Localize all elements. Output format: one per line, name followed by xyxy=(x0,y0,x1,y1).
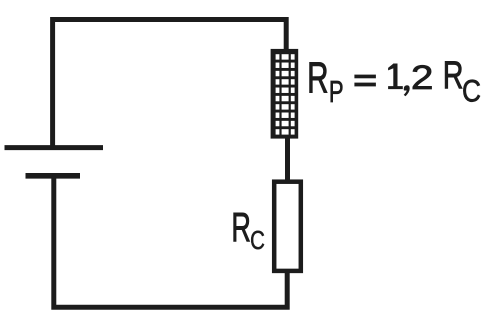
svg-text:C: C xyxy=(462,75,481,110)
svg-text:R: R xyxy=(443,54,464,97)
equals sign xyxy=(354,75,376,87)
battery B1 long plate xyxy=(5,145,104,150)
wire: between RP and RC xyxy=(285,137,290,181)
label RC (in equation) xyxy=(443,54,481,109)
wire: from battery bottom plate along bottom side up to resistor RC xyxy=(54,177,287,307)
label RC (at resistor) xyxy=(231,206,264,255)
resistor RC body xyxy=(274,182,301,271)
label RP xyxy=(307,53,343,109)
svg-text:P: P xyxy=(329,75,344,109)
svg-text:C: C xyxy=(250,226,265,255)
svg-text:2: 2 xyxy=(411,59,434,98)
wire: left+top side from battery top plate to resistor RP xyxy=(53,20,287,147)
battery B1 short plate xyxy=(26,173,81,179)
resistor RP hatched body xyxy=(271,49,299,139)
svg-text:R: R xyxy=(307,53,328,102)
comma xyxy=(404,85,410,96)
svg-text:R: R xyxy=(231,206,251,251)
value digit 1 xyxy=(388,64,403,90)
value digit 2 xyxy=(411,59,434,98)
